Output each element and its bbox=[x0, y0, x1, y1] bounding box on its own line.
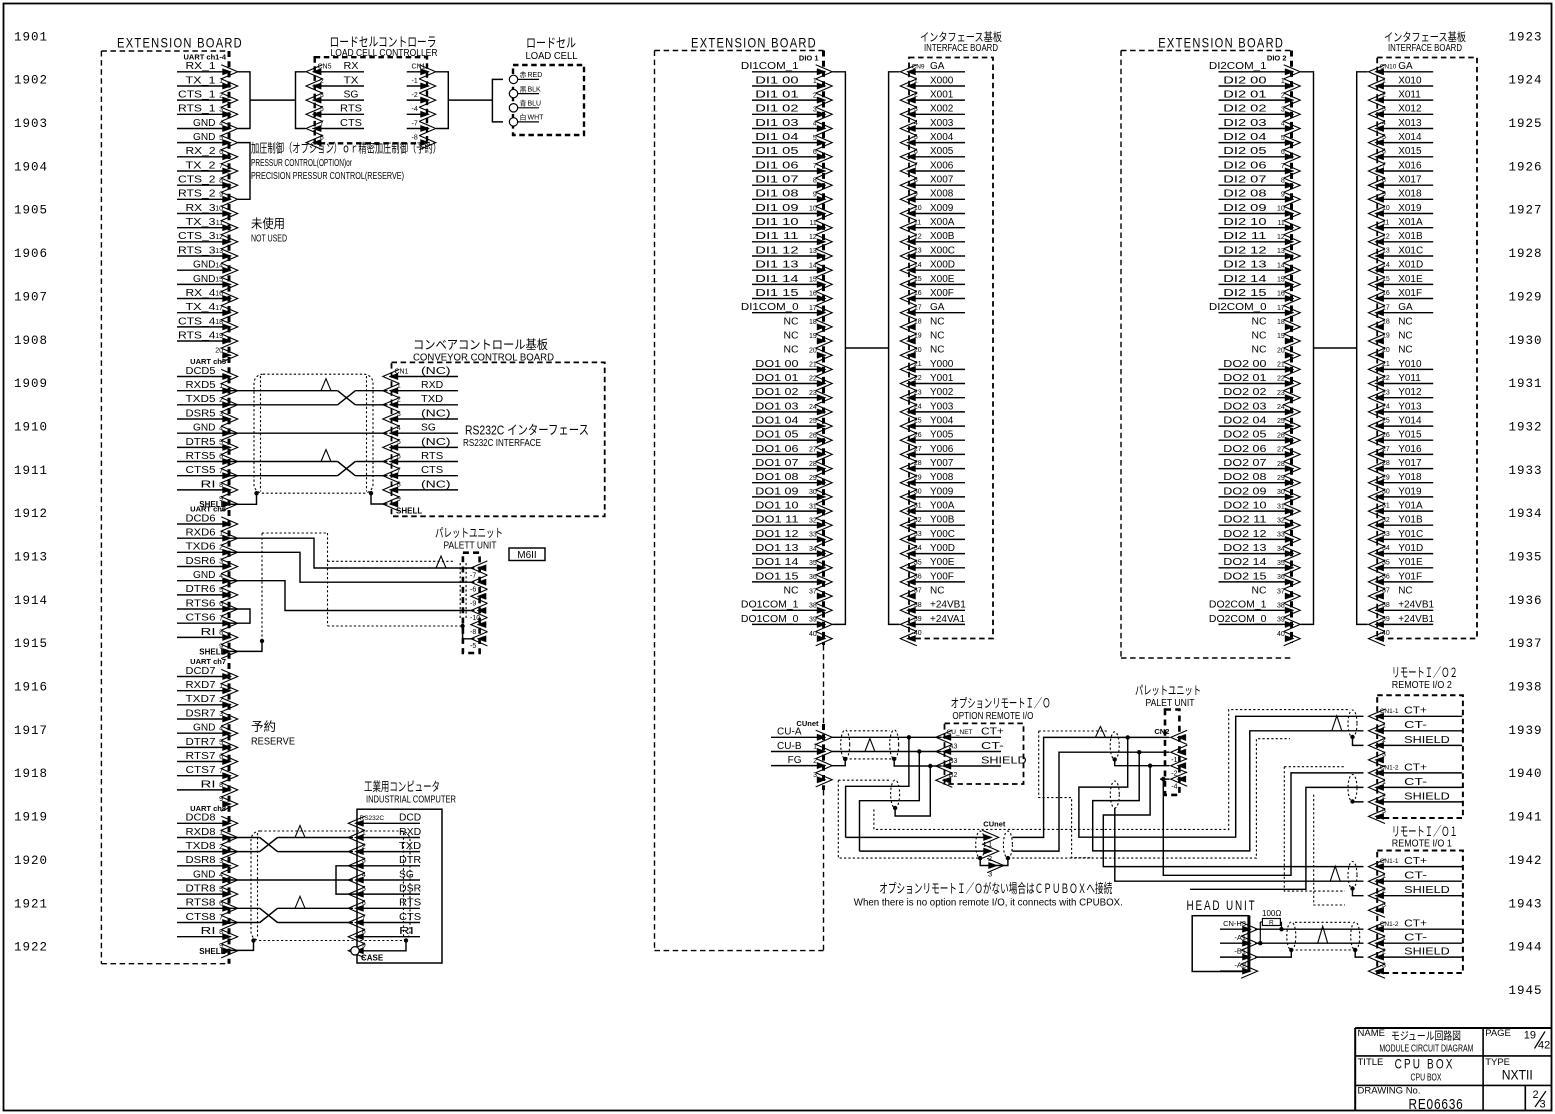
junction CU-B branch bbox=[917, 749, 921, 753]
wire CTS8 to computer bbox=[229, 922, 260, 924]
svg-text:X018: X018 bbox=[1398, 189, 1422, 200]
connector pin CN2 of palet unit bbox=[1171, 730, 1188, 744]
svg-text:-2: -2 bbox=[912, 92, 918, 99]
svg-text:1935: 1935 bbox=[1508, 551, 1542, 565]
connector pin DO1 15 (36) bbox=[752, 581, 819, 583]
connector pin RS232C DCD of industrial computer bbox=[357, 822, 420, 824]
resistor right lead to CT+ wire bbox=[1280, 921, 1281, 923]
connector pin TX_4 (17) of UART ch1-4 bbox=[177, 312, 224, 314]
connector pin DI2 14 (15) bbox=[1219, 283, 1287, 285]
svg-text:-27: -27 bbox=[912, 446, 922, 453]
svg-text:CT+: CT+ bbox=[1404, 918, 1427, 930]
svg-text:4: 4 bbox=[219, 573, 223, 580]
connector pin -11 X01A of interface board bbox=[1377, 227, 1433, 229]
svg-text:1: 1 bbox=[219, 530, 223, 537]
connector pin CN1-1 RXD of conveyor control board bbox=[392, 390, 459, 392]
connector pin RTS_2 (9) of UART ch1-4 bbox=[177, 198, 224, 200]
bracket extension connector group bbox=[833, 72, 846, 625]
svg-text:-28: -28 bbox=[912, 460, 922, 467]
bracket group UART ch1 pins 1-5 bbox=[238, 72, 250, 129]
svg-text:3: 3 bbox=[988, 870, 992, 879]
wire RXD8 to computer bbox=[229, 837, 260, 839]
connector pin CN2-4 of palet unit bbox=[1171, 772, 1188, 786]
svg-text:37: 37 bbox=[1277, 588, 1285, 595]
svg-text:CN1-1: CN1-1 bbox=[1380, 708, 1399, 715]
svg-text:GND: GND bbox=[193, 132, 216, 143]
crossover RTS8/CTS8 bbox=[260, 908, 278, 922]
connector pin CN1-2 TXD of conveyor control board bbox=[392, 404, 459, 406]
svg-text:8: 8 bbox=[813, 177, 817, 184]
svg-text:30: 30 bbox=[809, 489, 817, 496]
connector pin DI1COM_1 (-) bbox=[752, 71, 819, 73]
mid CUnet connector pin 2 bbox=[982, 844, 999, 858]
svg-text:-9: -9 bbox=[1380, 191, 1386, 198]
connector pin RI (8) of UART ch5 bbox=[177, 489, 224, 491]
svg-text:-3: -3 bbox=[1380, 902, 1386, 909]
svg-text:Y01A: Y01A bbox=[1398, 501, 1423, 512]
svg-text:DO2 06: DO2 06 bbox=[1223, 444, 1267, 455]
bracket interface connector group bbox=[1357, 72, 1368, 625]
svg-text:NC: NC bbox=[784, 330, 799, 341]
connector pin CTS_3 (12) of UART ch1-4 bbox=[177, 241, 224, 243]
connector pin SHELL (9) of UART ch5 bbox=[221, 497, 238, 511]
head unit cable jacket bbox=[1295, 921, 1352, 923]
svg-text:7: 7 bbox=[813, 163, 817, 170]
svg-text:24: 24 bbox=[1277, 404, 1285, 411]
svg-text:-21: -21 bbox=[912, 361, 922, 368]
svg-text:1: 1 bbox=[813, 744, 817, 751]
connector pin DI1 00 (1) bbox=[752, 85, 819, 87]
connector pin GND (5) of UART ch1-4 bbox=[177, 142, 224, 144]
svg-text:X012: X012 bbox=[1398, 104, 1422, 115]
connector pin CU-B (1) of CUnet bbox=[771, 751, 819, 753]
svg-text:DTR5: DTR5 bbox=[186, 437, 216, 448]
svg-text:-25: -25 bbox=[1380, 418, 1390, 425]
extension board (DI1) connector edge heavy dashed bbox=[822, 51, 825, 646]
connector pin DO2 14 (35) bbox=[1219, 567, 1287, 569]
wire TXD5 to conveyor bbox=[229, 404, 338, 406]
connector pin SHELL (9) of UART ch6 bbox=[221, 644, 238, 658]
svg-text:DI2 14: DI2 14 bbox=[1223, 274, 1267, 285]
extension board (DI2) dashed outline bbox=[1121, 50, 1292, 52]
svg-text:NC: NC bbox=[1398, 330, 1412, 341]
bus wire 1 continues to palett CN2 bbox=[1012, 737, 1169, 837]
svg-text:6: 6 bbox=[219, 149, 223, 156]
svg-text:1933: 1933 bbox=[1508, 464, 1542, 478]
svg-text:リモートＩ／Ｏ１: リモートＩ／Ｏ１ bbox=[1392, 824, 1458, 839]
connector pin DI2 01 (2) bbox=[1219, 99, 1287, 101]
svg-text:-8: -8 bbox=[470, 629, 476, 636]
connector pin -35 Y00E of interface board bbox=[909, 567, 965, 569]
svg-text:-1: -1 bbox=[1380, 935, 1386, 942]
connector pin DI1 01 (2) bbox=[752, 99, 819, 101]
svg-text:29: 29 bbox=[809, 475, 817, 482]
connector pin 3 of CUnet bbox=[816, 773, 833, 787]
connector pin DO1 04 (25) bbox=[752, 425, 819, 427]
svg-text:-9: -9 bbox=[470, 601, 476, 608]
svg-text:-26: -26 bbox=[912, 432, 922, 439]
wire load cell controller to load cell bbox=[448, 99, 492, 101]
svg-text:RTS7: RTS7 bbox=[186, 751, 217, 762]
connector pin DI2 04 (5) bbox=[1219, 142, 1287, 144]
junction FG-shield bbox=[843, 757, 847, 761]
svg-text:1913: 1913 bbox=[14, 551, 48, 565]
svg-text:X006: X006 bbox=[930, 160, 954, 171]
bracket interface connector group bbox=[889, 72, 900, 625]
svg-text:DO2 12: DO2 12 bbox=[1223, 529, 1267, 540]
svg-text:DI1 06: DI1 06 bbox=[755, 160, 799, 171]
svg-text:GND: GND bbox=[193, 723, 216, 734]
junction CN2 CT- branch bbox=[1137, 750, 1141, 754]
connector pin -16 X01F of interface board bbox=[1377, 298, 1433, 300]
connector pin GND (4) of UART ch8 bbox=[177, 879, 224, 881]
svg-text:-1: -1 bbox=[1380, 78, 1386, 85]
connector pin DI2COM_1 (-) bbox=[1219, 71, 1287, 73]
svg-text:-6: -6 bbox=[1380, 148, 1386, 155]
svg-text:CN1: CN1 bbox=[412, 64, 426, 71]
svg-text:-16: -16 bbox=[1380, 290, 1390, 297]
svg-text:DO2 01: DO2 01 bbox=[1223, 373, 1267, 384]
svg-text:-35: -35 bbox=[912, 559, 922, 566]
connector pin CN2-2 of palet unit bbox=[1171, 759, 1188, 773]
svg-text:1932: 1932 bbox=[1508, 421, 1542, 435]
junction CN2 shield bbox=[1113, 757, 1117, 761]
svg-text:-12: -12 bbox=[1380, 233, 1390, 240]
svg-text:RTS5: RTS5 bbox=[186, 451, 217, 462]
svg-text:DI1 08: DI1 08 bbox=[755, 189, 799, 200]
svg-text:インタフェース基板: インタフェース基板 bbox=[1384, 30, 1466, 44]
svg-text:-26: -26 bbox=[1380, 432, 1390, 439]
svg-text:2: 2 bbox=[219, 397, 223, 404]
svg-text:-33: -33 bbox=[1380, 531, 1390, 538]
svg-text:-6: -6 bbox=[360, 900, 366, 907]
svg-text:TXD8: TXD8 bbox=[186, 841, 217, 852]
svg-text:DSR5: DSR5 bbox=[186, 408, 216, 419]
connector pin -28 Y017 of interface board bbox=[1377, 468, 1433, 470]
svg-text:3: 3 bbox=[813, 107, 817, 114]
connector pin CN1-7 of load cell controller bbox=[407, 128, 427, 130]
svg-text:DI2COM_1: DI2COM_1 bbox=[1209, 61, 1267, 72]
svg-text:CN9: CN9 bbox=[912, 63, 925, 70]
svg-text:1931: 1931 bbox=[1508, 377, 1542, 391]
svg-text:-20: -20 bbox=[912, 347, 922, 354]
connector pin -14 X01D of interface board bbox=[1377, 269, 1433, 271]
svg-text:2: 2 bbox=[1533, 1089, 1539, 1101]
svg-text:2: 2 bbox=[219, 545, 223, 552]
svg-text:40: 40 bbox=[1277, 631, 1285, 638]
bracket DTR-DSR bridge bbox=[336, 866, 357, 894]
svg-text:19: 19 bbox=[215, 333, 223, 340]
svg-text:CN1-1: CN1-1 bbox=[1380, 858, 1399, 865]
svg-text:RI: RI bbox=[201, 779, 216, 790]
svg-text:RTS_2: RTS_2 bbox=[178, 189, 216, 200]
svg-text:8: 8 bbox=[219, 177, 223, 184]
svg-text:1922: 1922 bbox=[14, 941, 48, 955]
connector pin RI (8) of UART ch8 bbox=[177, 936, 224, 938]
cable jacket dotted run 7 bbox=[1314, 795, 1345, 905]
connector pin DI2 02 (3) bbox=[1219, 113, 1287, 115]
svg-text:-2: -2 bbox=[318, 78, 324, 85]
connector pin TX_1 (1) of UART ch1-4 bbox=[177, 85, 224, 87]
svg-text:-2: -2 bbox=[1380, 737, 1386, 744]
svg-text:DI2 04: DI2 04 bbox=[1223, 132, 1267, 143]
svg-text:Y001: Y001 bbox=[930, 373, 954, 384]
load cell terminal BLK bbox=[509, 89, 517, 97]
svg-text:DI1 13: DI1 13 bbox=[755, 260, 799, 271]
svg-text:Y007: Y007 bbox=[930, 458, 954, 469]
wire -B1 to cable shield bbox=[1255, 950, 1291, 957]
svg-text:DO1 03: DO1 03 bbox=[755, 401, 799, 412]
connector pin DCD6 (-) of UART ch6 bbox=[177, 523, 224, 525]
svg-text:DI2 08: DI2 08 bbox=[1223, 189, 1267, 200]
connector pin -1 CT- of remote I/O bbox=[1377, 942, 1462, 944]
junction shield-SHELL ch8 bbox=[251, 938, 255, 942]
svg-text:-38: -38 bbox=[912, 602, 922, 609]
svg-text:CN-H3: CN-H3 bbox=[1223, 919, 1246, 928]
connector pin DCD5 (-) of UART ch5 bbox=[177, 376, 224, 378]
connector pin RTS_3 (13) of UART ch1-4 bbox=[177, 255, 224, 257]
svg-text:DO1 02: DO1 02 bbox=[755, 387, 799, 398]
svg-text:-2: -2 bbox=[412, 92, 418, 99]
load cell terminal RED bbox=[509, 75, 517, 83]
connector pin DSR7 (3) of UART ch7 bbox=[177, 718, 224, 720]
svg-text:DI1 14: DI1 14 bbox=[755, 274, 799, 285]
svg-text:RTS_1: RTS_1 bbox=[178, 104, 216, 115]
svg-text:30: 30 bbox=[1277, 489, 1285, 496]
svg-text:LOAD CELL CONTROLLER: LOAD CELL CONTROLLER bbox=[331, 47, 438, 59]
connector pin CN5 RX of load cell controller bbox=[315, 71, 364, 73]
connector pin -31 Y00A of interface board bbox=[909, 510, 965, 512]
wire RTS8 to computer bbox=[229, 907, 260, 909]
svg-text:X001: X001 bbox=[930, 90, 954, 101]
svg-text:DO2 04: DO2 04 bbox=[1223, 415, 1267, 426]
connector pin -12 X01B of interface board bbox=[1377, 241, 1433, 243]
svg-text:X015: X015 bbox=[1398, 146, 1422, 157]
svg-text:3: 3 bbox=[219, 858, 223, 865]
junction shield lower bbox=[893, 806, 897, 810]
svg-text:-3: -3 bbox=[1380, 963, 1386, 970]
svg-text:CT+: CT+ bbox=[981, 726, 1004, 738]
svg-text:1924: 1924 bbox=[1508, 74, 1542, 88]
connector pin GND (4) of UART ch7 bbox=[177, 732, 224, 734]
svg-text:14: 14 bbox=[215, 262, 223, 269]
svg-text:X01B: X01B bbox=[1398, 231, 1423, 242]
connector pin -15 X01E of interface board bbox=[1377, 283, 1433, 285]
svg-text:DI2 09: DI2 09 bbox=[1223, 203, 1267, 214]
svg-text:RTS: RTS bbox=[340, 104, 362, 115]
svg-text:3: 3 bbox=[219, 107, 223, 114]
svg-text:DO1 05: DO1 05 bbox=[755, 430, 799, 441]
connector pin RXD5 (1) of UART ch5 bbox=[177, 390, 224, 392]
svg-text:9: 9 bbox=[813, 192, 817, 199]
connector pin DCD8 (-) of UART ch8 bbox=[177, 822, 224, 824]
connector pin DO1COM_1 (38) bbox=[752, 609, 819, 611]
svg-text:+24VA1: +24VA1 bbox=[930, 614, 966, 625]
svg-text:-8: -8 bbox=[318, 134, 324, 141]
svg-text:Y009: Y009 bbox=[930, 486, 954, 497]
svg-text:(NC): (NC) bbox=[421, 408, 451, 419]
svg-text:-14: -14 bbox=[912, 262, 922, 269]
svg-text:パレットユニット: パレットユニット bbox=[1135, 684, 1201, 698]
connector pin -37 NC of interface board bbox=[900, 589, 917, 603]
svg-text:DI1 11: DI1 11 bbox=[755, 231, 799, 242]
svg-text:-36: -36 bbox=[1380, 574, 1390, 581]
svg-text:SHIELD: SHIELD bbox=[1404, 734, 1450, 746]
connector pin -36 Y01F of interface board bbox=[1377, 581, 1433, 583]
svg-text:CN5: CN5 bbox=[318, 64, 332, 71]
connector pin -5 X004 of interface board bbox=[909, 142, 965, 144]
svg-text:DI1 03: DI1 03 bbox=[755, 118, 799, 129]
palett unit M6 box bbox=[463, 553, 480, 653]
connector pin DTR7 (5) of UART ch7 bbox=[177, 746, 224, 748]
svg-text:OPTION REMOTE I/O: OPTION REMOTE I/O bbox=[952, 710, 1033, 722]
connector pin CN1-2 CT+ of remote I/O bbox=[1377, 928, 1462, 930]
cable ellipse at remote I/O 2 CN1-1 shield bbox=[1348, 710, 1357, 737]
svg-text:20: 20 bbox=[215, 347, 223, 354]
connector pin RS232C-3 DTR of industrial computer bbox=[357, 865, 420, 867]
connector pin -5 of palett unit M6 bbox=[471, 632, 488, 646]
svg-text:-1: -1 bbox=[360, 829, 366, 836]
svg-text:DO2 05: DO2 05 bbox=[1223, 430, 1267, 441]
svg-text:+24VB1: +24VB1 bbox=[1398, 600, 1434, 611]
connector pin DSR6 (3) of UART ch6 bbox=[177, 566, 224, 568]
svg-text:-1: -1 bbox=[412, 78, 418, 85]
svg-text:Y015: Y015 bbox=[1398, 430, 1422, 441]
svg-text:SHIELD: SHIELD bbox=[1404, 790, 1450, 802]
connector pin DI2 03 (4) bbox=[1219, 128, 1287, 130]
connector pin -12 X00B of interface board bbox=[909, 241, 965, 243]
svg-text:5: 5 bbox=[813, 135, 817, 142]
svg-text:CPU BOX: CPU BOX bbox=[1411, 1073, 1442, 1084]
svg-text:DI1 05: DI1 05 bbox=[755, 146, 799, 157]
junction shield to palett bbox=[460, 624, 464, 628]
connector pin GND (4) of UART ch6 bbox=[177, 580, 224, 582]
svg-text:RX_1: RX_1 bbox=[186, 61, 217, 72]
svg-text:X01D: X01D bbox=[1398, 260, 1423, 271]
svg-text:DI2 13: DI2 13 bbox=[1223, 260, 1267, 271]
svg-text:6: 6 bbox=[219, 754, 223, 761]
svg-text:-10: -10 bbox=[912, 205, 922, 212]
svg-text:-24: -24 bbox=[912, 404, 922, 411]
svg-text:X016: X016 bbox=[1398, 160, 1422, 171]
svg-text:-15: -15 bbox=[1380, 276, 1390, 283]
svg-text:9: 9 bbox=[219, 192, 223, 199]
svg-text:1930: 1930 bbox=[1508, 334, 1542, 348]
bus wire 1 to mid connector bbox=[846, 836, 987, 838]
svg-text:(NC): (NC) bbox=[421, 479, 451, 490]
svg-text:INTERFACE BOARD: INTERFACE BOARD bbox=[924, 43, 998, 54]
svg-text:+24VB1: +24VB1 bbox=[1398, 614, 1434, 625]
svg-text:CT-: CT- bbox=[981, 740, 1004, 752]
wire chain CT- to remote I/O 2 CN1-1 bbox=[1093, 731, 1364, 851]
svg-text:-11: -11 bbox=[912, 219, 922, 226]
connector pin CN9 GA of interface board bbox=[909, 71, 965, 73]
bracket group load cell wires bbox=[492, 79, 503, 122]
connector pin -4 X013 of interface board bbox=[1377, 128, 1433, 130]
svg-text:38: 38 bbox=[1277, 603, 1285, 610]
connector pin 40 (unused) bbox=[816, 632, 833, 646]
connector pin GND (4) of UART ch1-4 bbox=[177, 128, 224, 130]
wire chain to remote I/O 2 CN1-2 CT+ bbox=[1163, 773, 1363, 875]
svg-text:8: 8 bbox=[219, 782, 223, 789]
svg-text:-24: -24 bbox=[1380, 404, 1390, 411]
connector pin CN1 (NC) of conveyor control board bbox=[392, 376, 459, 378]
svg-text:CTS8: CTS8 bbox=[186, 912, 217, 923]
svg-text:-1: -1 bbox=[1380, 873, 1386, 880]
svg-text:Y019: Y019 bbox=[1398, 486, 1422, 497]
svg-text:DCD: DCD bbox=[399, 813, 421, 824]
svg-text:-8: -8 bbox=[912, 177, 918, 184]
svg-text:CT+: CT+ bbox=[1404, 761, 1427, 773]
connector pin CN1-5 (NC) of conveyor control board bbox=[392, 446, 459, 448]
wire CU-A branch down to bus bbox=[846, 737, 909, 837]
svg-text:NC: NC bbox=[784, 586, 799, 597]
svg-text:-4: -4 bbox=[912, 120, 918, 127]
svg-text:-2: -2 bbox=[395, 397, 401, 404]
svg-text:-9: -9 bbox=[395, 496, 401, 503]
load cell controller box bbox=[315, 57, 427, 143]
connector pin DI1 03 (4) bbox=[752, 128, 819, 130]
svg-text:CU-B: CU-B bbox=[777, 741, 802, 752]
svg-text:CTS_1: CTS_1 bbox=[178, 90, 216, 101]
junction CN2 -2 branch bbox=[1148, 764, 1152, 768]
connector pin -29 Y018 of interface board bbox=[1377, 482, 1433, 484]
svg-text:1942: 1942 bbox=[1508, 854, 1542, 868]
svg-text:20: 20 bbox=[1277, 347, 1285, 354]
svg-text:39: 39 bbox=[809, 617, 817, 624]
connector pin CN1-8 (NC) of conveyor control board bbox=[392, 489, 459, 491]
svg-text:-5: -5 bbox=[360, 886, 366, 893]
svg-text:10: 10 bbox=[1277, 206, 1285, 213]
svg-text:DI2 15: DI2 15 bbox=[1223, 288, 1267, 299]
connector pin DO1 03 (24) bbox=[752, 411, 819, 413]
connector pin -21 Y000 of interface board bbox=[909, 368, 965, 370]
cable shield jacket UART ch5 bbox=[254, 374, 373, 493]
svg-text:(NC): (NC) bbox=[421, 366, 451, 377]
connector pin CN1-2 CT+ of remote I/O bbox=[1377, 772, 1462, 774]
svg-text:-B2: -B2 bbox=[947, 772, 958, 779]
svg-text:X000: X000 bbox=[930, 75, 954, 86]
wire RTS6-CTS6 loopback bbox=[229, 609, 250, 623]
svg-text:100Ω: 100Ω bbox=[1262, 909, 1281, 918]
svg-text:RX: RX bbox=[344, 61, 359, 72]
junction CN2 -4 bbox=[1161, 777, 1165, 781]
svg-text:Y017: Y017 bbox=[1398, 458, 1422, 469]
svg-text:DI2 03: DI2 03 bbox=[1223, 118, 1267, 129]
connector pin RX_2 (6) of UART ch1-4 bbox=[177, 156, 224, 158]
connector pin -6 X005 of interface board bbox=[909, 156, 965, 158]
svg-text:22: 22 bbox=[809, 376, 817, 383]
svg-text:4: 4 bbox=[1281, 121, 1285, 128]
connector pin RS232C-9 CASE of industrial computer bbox=[348, 944, 365, 958]
svg-text:25: 25 bbox=[1277, 418, 1285, 425]
bracket group CN5 side bbox=[296, 72, 306, 129]
svg-text:CONVEYOR CONTROL BOARD: CONVEYOR CONTROL BOARD bbox=[413, 351, 554, 363]
svg-text:パレットユニット: パレットユニット bbox=[435, 526, 503, 540]
svg-text:NC: NC bbox=[1252, 345, 1267, 356]
svg-text:DI1 01: DI1 01 bbox=[755, 90, 799, 101]
svg-text:EXTENSION BOARD: EXTENSION BOARD bbox=[1158, 35, 1284, 51]
svg-text:-23: -23 bbox=[1380, 389, 1390, 396]
svg-text:13: 13 bbox=[809, 248, 817, 255]
svg-text:X00A: X00A bbox=[930, 217, 955, 228]
connector pin DO1 07 (28) bbox=[752, 468, 819, 470]
option remote I/O box bbox=[945, 723, 1024, 784]
svg-text:1937: 1937 bbox=[1508, 637, 1542, 651]
svg-text:DI2 05: DI2 05 bbox=[1223, 146, 1267, 157]
junction shield ch6 bbox=[260, 639, 264, 643]
svg-text:FG: FG bbox=[788, 755, 802, 766]
